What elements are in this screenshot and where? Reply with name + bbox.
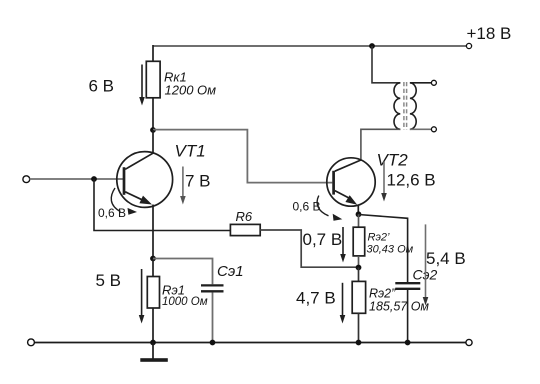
resistor Rk1	[146, 61, 160, 98]
node emitter VT2	[356, 211, 362, 217]
resistor Re2''	[352, 281, 365, 313]
wire bottom rail	[34, 342, 466, 344]
wire secondary bottom	[410, 128, 431, 130]
svg-text:1200 Ом: 1200 Ом	[165, 83, 217, 98]
wire transformer primary top	[372, 46, 400, 83]
arrow 7V	[180, 167, 186, 205]
arrow 12.6V	[381, 162, 387, 202]
wire secondary top	[410, 82, 431, 84]
node base VT1	[91, 176, 97, 182]
arrow 6V	[139, 65, 145, 106]
terminal +18V	[466, 43, 471, 48]
terminal bottom-left	[28, 339, 35, 346]
svg-text:7 В: 7 В	[185, 171, 211, 190]
capacitor Ce2	[395, 283, 420, 289]
transistor VT1	[117, 130, 173, 207]
wire Ce2 bottom lead	[407, 290, 409, 343]
wire input to base VT1	[30, 178, 124, 180]
arrow curved 0.6V VT1	[111, 188, 137, 215]
wire Rk1 top lead	[152, 45, 154, 61]
wire Rk1 bottom lead	[152, 98, 154, 130]
svg-text:VT2: VT2	[377, 151, 409, 170]
svg-text:0,6 В: 0,6 В	[293, 200, 321, 214]
capacitor Ce1	[201, 285, 224, 291]
resistor Re1	[147, 277, 159, 309]
wire Re1 bottom lead	[152, 308, 154, 343]
wire primary bottom to collector VT2	[361, 129, 400, 161]
transformer T1	[394, 82, 416, 130]
svg-text:1000 Ом: 1000 Ом	[162, 296, 208, 308]
node rail Ce1	[210, 340, 216, 346]
svg-text:5 В: 5 В	[96, 271, 122, 290]
svg-text:12,6 В: 12,6 В	[387, 171, 436, 190]
svg-text:4,7 В: 4,7 В	[296, 289, 336, 308]
node emitter VT1	[150, 256, 156, 262]
wire Re2'' bottom lead	[358, 313, 360, 342]
arrow 5V	[139, 269, 145, 324]
node Re2 junction	[356, 265, 362, 271]
svg-text:Cэ1: Cэ1	[217, 263, 244, 280]
wire R6 to Re2 junction	[260, 230, 358, 267]
arrow 5.4V	[423, 224, 429, 305]
node rail Re2''	[356, 340, 362, 346]
wire Re2'' top lead	[358, 268, 360, 282]
wire top supply rail	[153, 45, 466, 47]
svg-text:R6: R6	[236, 209, 253, 224]
arrow 0.7V	[340, 227, 346, 263]
arrow curved 0.6V VT2	[317, 196, 342, 221]
node collector VT1	[150, 127, 156, 133]
svg-text:0,7 В: 0,7 В	[303, 230, 343, 249]
wire Ce1 bottom lead	[212, 292, 214, 342]
terminal secondary bottom	[431, 127, 436, 132]
wire Re2' top lead	[358, 214, 360, 227]
svg-text:5,4 В: 5,4 В	[426, 249, 466, 268]
resistor R6	[230, 224, 260, 235]
wire emitter VT2 down	[357, 205, 359, 215]
ground	[140, 343, 168, 362]
wire emitter VT1 down	[152, 205, 154, 259]
transistor VT2	[327, 158, 375, 206]
node top rail / transformer junction	[369, 43, 375, 49]
terminal input	[23, 176, 30, 183]
svg-text:VT1: VT1	[175, 142, 206, 161]
wire Re1 top lead	[152, 259, 154, 277]
wire emitter VT2 to Ce2	[359, 215, 408, 283]
svg-text:6 В: 6 В	[89, 77, 115, 96]
svg-text:+18 В: +18 В	[467, 24, 512, 43]
svg-text:0,6 В: 0,6 В	[98, 206, 126, 220]
resistor Re2'	[353, 227, 365, 256]
terminal bottom-right	[466, 339, 472, 345]
wire emitter VT1 to Ce1	[153, 259, 213, 285]
svg-text:185,57 Ом: 185,57 Ом	[369, 300, 429, 314]
terminal secondary top	[431, 80, 436, 85]
wire coupling collector VT1 to base VT2	[153, 130, 332, 183]
node rail Ce2	[405, 340, 411, 346]
wire Re2' bottom lead	[358, 256, 360, 268]
svg-text:30,43 Ом: 30,43 Ом	[367, 243, 414, 255]
svg-text:Rэ2’: Rэ2’	[368, 232, 390, 244]
arrow 4.7V	[340, 283, 346, 324]
wire feedback base VT1 to R6	[94, 179, 230, 231]
node rail Re1	[150, 340, 156, 346]
